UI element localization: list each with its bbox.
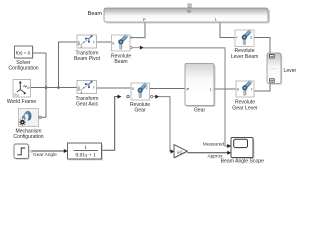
svg-text:L: L (215, 18, 217, 22)
wire: Transform Gear Axis to Revolute Gear B (97, 87, 132, 89)
svg-text:Gear Lever: Gear Lever (232, 105, 258, 111)
wire: Transform Beam Pivot F to Revolute Beam B (97, 41, 112, 43)
svg-text:F: F (93, 86, 95, 90)
label Mechanism Configuration (13, 128, 43, 140)
wire: gain output (Approx) to scope (187, 151, 231, 155)
block Transfer Fcn 1/(0.01s+1) (68, 143, 103, 160)
wire: Solver Configuration output to trunk (33, 52, 47, 54)
svg-text:B: B (112, 41, 114, 45)
label Revolute Gear Lever (232, 100, 258, 112)
svg-text:World Frame: World Frame (7, 99, 37, 105)
svg-text:Gear Axis: Gear Axis (76, 101, 99, 107)
wire: Beam port L down to Revolute Lever Beam F (220, 22, 235, 38)
label Revolute Beam (111, 53, 131, 65)
block Revolute Lever Beam (235, 30, 254, 47)
subsystem Beam (body block) (104, 8, 270, 24)
wire: Revolute Gear q out, down to gain (151, 95, 175, 154)
svg-text:f(x) = 0: f(x) = 0 (16, 50, 31, 55)
svg-text:B: B (78, 86, 80, 90)
svg-text:B: B (132, 87, 134, 91)
svg-text:a/L: a/L (177, 149, 183, 154)
wire: Revolute Gear F to Gear P (150, 88, 186, 90)
svg-text:F: F (131, 36, 133, 40)
label World Frame (7, 99, 37, 105)
svg-text:Lever: Lever (284, 68, 297, 74)
label Lever (284, 68, 297, 74)
svg-text:P: P (187, 86, 190, 91)
block Transform Gear Axis (77, 81, 97, 94)
block Step (Gear Angle) (14, 144, 30, 160)
wire: measured beam angle to scope (arrow mid, long path) (140, 46, 231, 148)
svg-text:Beam: Beam (88, 11, 103, 17)
wire: Beam port P down to Revolute Beam F (130, 22, 145, 38)
wire: Lever bottom port to Revolute Gear Lever F (254, 84, 270, 91)
wire: Transfer Fcn output up to Revolute Gear t port (101, 95, 129, 151)
node junction at (58.5,87.5) (57, 86, 60, 89)
label Transform Beam Pivot (74, 50, 101, 62)
svg-text:Beam Angle Scope: Beam Angle Scope (221, 158, 264, 164)
wire: Step to Transfer Fcn (31, 149, 68, 153)
svg-text:0.01s + 1: 0.01s + 1 (76, 152, 97, 158)
svg-text:B: B (250, 36, 252, 40)
wire: Gear L to Revolute Gear Lever B (214, 88, 236, 90)
wire: Revolute Lever Beam B to Lever top port (254, 38, 270, 54)
label Gear (194, 108, 206, 114)
label Transform Gear Axis (75, 96, 98, 108)
subsystem Lever (body block) (267, 53, 282, 85)
svg-text:Measured: Measured (203, 141, 224, 147)
wire: vertical trunk x=46 (solver down to mechanism), junction at y=87.5 (41, 53, 46, 117)
wire: Revolute Beam q sensing line (salmon segment) (130, 47, 140, 49)
node junction at (46,87.5) (45, 86, 48, 89)
block World Frame (13, 80, 31, 98)
svg-text:F: F (251, 88, 253, 92)
label Beam (88, 11, 103, 17)
block Beam Angle Scope (231, 138, 254, 159)
svg-text:B: B (237, 88, 239, 92)
svg-text:do: do (187, 9, 191, 13)
svg-text:Configuration: Configuration (13, 134, 43, 140)
svg-text:Approx: Approx (207, 154, 223, 160)
label Revolute Gear (130, 102, 150, 114)
svg-text:Gear: Gear (194, 108, 206, 114)
subsystem Gear (body block) (185, 64, 216, 108)
block Revolute Gear Lever (236, 80, 254, 97)
svg-text:Beam Pivot: Beam Pivot (74, 56, 101, 62)
label Beam Angle Scope (221, 158, 264, 164)
block Mechanism Configuration (19, 109, 42, 127)
block Revolute Gear (131, 83, 150, 100)
block Solver Configuration (15, 46, 34, 59)
label Solver Configuration (8, 60, 38, 72)
wire: World Frame to Transform Gear Axis (y=87.5) (30, 87, 77, 89)
svg-text:Gear: Gear (134, 107, 146, 113)
block Transform Beam Pivot (77, 35, 97, 48)
label Approx (207, 154, 223, 160)
block Gain a/L (174, 145, 188, 159)
svg-text:F: F (93, 40, 95, 44)
svg-text:Gear Angle: Gear Angle (33, 152, 57, 158)
svg-text:F: F (146, 87, 148, 91)
label Gear Angle (33, 152, 57, 158)
svg-text:Lever Beam: Lever Beam (231, 54, 258, 60)
label Measured (203, 141, 224, 147)
svg-text:B: B (78, 40, 80, 44)
wire: vertical trunk x=58.5 to Transform Beam Pivot (59, 42, 78, 88)
svg-text:Beam: Beam (114, 59, 127, 65)
svg-text:F: F (236, 36, 238, 40)
block Revolute Beam (112, 34, 133, 51)
port icon on top of Beam with label do (187, 4, 191, 14)
label Revolute Lever Beam (231, 48, 258, 60)
svg-text:Configuration: Configuration (8, 66, 38, 72)
